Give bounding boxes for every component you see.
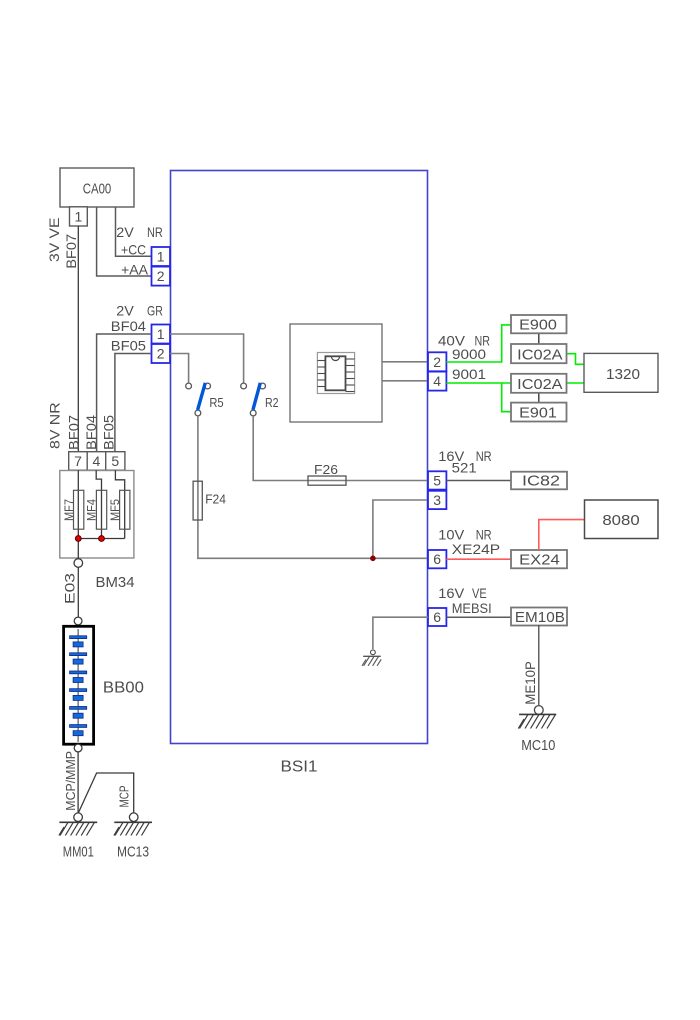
wire branch to MC13 [78, 773, 133, 813]
wire pin4 through fuse MF4 [96, 470, 101, 538]
svg-text:E901: E901 [519, 405, 557, 422]
svg-text:BB00: BB00 [103, 680, 144, 697]
pin 1 of CA00 [70, 207, 88, 226]
fuse F26 [308, 462, 346, 485]
svg-text:IC82: IC82 [522, 473, 560, 490]
svg-text:BF05: BF05 [111, 338, 146, 354]
svg-text:IC02A: IC02A [517, 376, 562, 393]
junction node (MF7) [75, 536, 81, 542]
svg-text:3V VE: 3V VE [46, 218, 62, 263]
wire pin6 to EM10B [446, 616, 511, 618]
pin 6 (XE24P) of BSI1 [428, 550, 446, 568]
svg-text:521: 521 [452, 459, 477, 475]
node E03 [74, 559, 83, 568]
switch R5 [186, 383, 224, 416]
wire pin6 internal to ground [373, 617, 428, 649]
svg-text:E900: E900 [519, 317, 557, 334]
unit EX24 [511, 550, 567, 569]
unit IC02A (upper) [511, 344, 567, 364]
svg-text:2V: 2V [116, 303, 134, 319]
wire pin 3 internal [373, 500, 428, 558]
svg-text:5: 5 [111, 453, 119, 469]
fuse F24 [193, 481, 226, 520]
unit E901 [511, 403, 567, 422]
svg-text:BF05: BF05 [101, 415, 117, 450]
svg-text:MF5: MF5 [108, 499, 122, 521]
svg-text:EM10B: EM10B [515, 609, 565, 626]
wire R2 down through F26 to pin 5 [253, 416, 428, 481]
unit 1320 [584, 353, 658, 392]
svg-text:16V: 16V [438, 585, 465, 601]
unit IC82 [511, 472, 567, 490]
svg-text:EX24: EX24 [519, 552, 560, 569]
svg-text:6: 6 [433, 609, 441, 625]
wire pin2 to switch R5 [170, 354, 189, 383]
svg-text:MC13: MC13 [117, 844, 149, 861]
red wire EX24 to 8080 [539, 520, 585, 550]
pin 2 (BF05) of BSI1 [152, 344, 171, 363]
svg-text:E03: E03 [62, 573, 78, 604]
svg-text:NR: NR [476, 448, 492, 464]
svg-text:+CC: +CC [121, 241, 146, 257]
unit BSI1 outline [171, 171, 428, 744]
svg-text:MCP: MCP [117, 786, 132, 808]
green wire IC02A to 1320 [567, 354, 585, 365]
wire E03 to battery [77, 567, 79, 617]
battery BB00 [64, 617, 144, 752]
unit BM34 outline [60, 471, 134, 559]
fuse MF7 [62, 490, 84, 529]
svg-text:4: 4 [433, 373, 441, 389]
svg-text:BF07: BF07 [63, 234, 79, 269]
link IC02A to E901 [538, 393, 540, 403]
wire CPU to pin 2 [382, 361, 428, 363]
wire +AA from CA00 to BSI pin 2 [97, 207, 152, 276]
red wire pin6 to EX24 [446, 558, 511, 560]
svg-text:GR: GR [147, 303, 163, 319]
ground MC10 [518, 706, 556, 754]
pin 2 (+AA) of BSI1 [152, 267, 171, 286]
svg-text:1: 1 [157, 249, 165, 265]
wire BF05 down to BM34 pin 5 [115, 354, 152, 452]
svg-text:F24: F24 [205, 492, 226, 507]
svg-text:9000: 9000 [452, 346, 486, 362]
svg-text:BF04: BF04 [83, 415, 99, 450]
pin 7 of BM34 [69, 452, 88, 471]
svg-text:NR: NR [147, 224, 163, 240]
svg-text:MCP/MMP: MCP/MMP [63, 751, 78, 811]
fuse MF5 [108, 490, 130, 529]
svg-text:BM34: BM34 [96, 574, 135, 591]
svg-text:8080: 8080 [602, 512, 639, 529]
svg-text:5: 5 [433, 472, 441, 488]
fuse MF4 [85, 490, 107, 529]
svg-text:2: 2 [433, 354, 441, 370]
svg-text:1: 1 [75, 209, 83, 225]
wire BF07 from CA00 pin1 down to BM34 pin 7 [77, 226, 79, 452]
pin 1 (BF04) of BSI1 [152, 325, 171, 344]
svg-text:MC10: MC10 [521, 737, 555, 754]
svg-text:BSI1: BSI1 [281, 759, 318, 776]
svg-text:3: 3 [433, 492, 441, 508]
svg-text:MEBSI: MEBSI [452, 600, 492, 616]
wire joining fuses [78, 538, 124, 540]
link E900 to IC02A [538, 333, 540, 344]
green wire IC02A(2) to 1320 [567, 382, 585, 384]
pin 6 (MEBSI) of BSI1 [428, 608, 446, 626]
pin 1 (+CC) of BSI1 [152, 247, 171, 266]
wire R5 down through F24 to pin 6 [198, 416, 428, 558]
svg-text:MF7: MF7 [62, 499, 76, 521]
svg-text:2: 2 [157, 346, 165, 362]
CPU block of BSI1 [290, 324, 382, 422]
wire pin1 to switch R2 [170, 334, 244, 383]
ground MC13 [114, 813, 152, 861]
wire +CC from CA00 to BSI pin 1 [116, 207, 152, 256]
svg-text:IC02A: IC02A [517, 347, 562, 364]
unit E900 [511, 315, 567, 334]
connector CA00 [60, 168, 134, 207]
switch R2 [241, 383, 279, 416]
svg-text:F26: F26 [314, 462, 338, 477]
svg-text:2: 2 [157, 268, 165, 284]
svg-text:2V: 2V [116, 224, 134, 240]
pin 2 of BSI1 (right) [428, 352, 446, 371]
ground (internal) [362, 650, 381, 666]
svg-text:BF04: BF04 [111, 318, 146, 334]
wire BF04 down to BM34 pin 4 [97, 334, 152, 452]
pin 5 of BM34 [106, 452, 125, 471]
svg-text:R2: R2 [265, 395, 279, 410]
svg-text:+AA: +AA [121, 261, 149, 277]
svg-text:MM01: MM01 [63, 844, 94, 861]
svg-text:VE: VE [472, 585, 487, 601]
svg-text:6: 6 [433, 551, 441, 567]
pin 4 of BSI1 (right) [428, 372, 446, 391]
svg-text:8V NR: 8V NR [47, 402, 63, 449]
svg-text:7: 7 [74, 453, 82, 469]
green wire pin2 to E900 [446, 325, 511, 362]
svg-text:1320: 1320 [606, 366, 640, 383]
wire battery to ground MM01 [77, 752, 79, 813]
svg-text:XE24P: XE24P [452, 541, 500, 557]
svg-text:9001: 9001 [452, 366, 486, 382]
svg-text:ME10P: ME10P [522, 661, 538, 705]
unit EM10B [511, 608, 567, 626]
unit 8080 [585, 500, 659, 539]
green wire pin4 to IC02A [446, 382, 511, 384]
svg-text:R5: R5 [209, 395, 223, 410]
junction node [370, 556, 376, 562]
pin 5 of BSI1 [428, 471, 446, 489]
unit IC02A (lower) [511, 374, 567, 393]
svg-text:CA00: CA00 [83, 181, 112, 198]
IC U1 inside CPU block [317, 353, 354, 394]
svg-text:4: 4 [93, 453, 101, 469]
svg-text:1: 1 [157, 326, 165, 342]
junction node (MF4) [99, 536, 105, 542]
wire pin5 to IC82 [446, 480, 511, 482]
pin 4 of BM34 [87, 452, 106, 471]
svg-text:MF4: MF4 [85, 499, 99, 521]
wire pin5 through fuse MF5 [115, 470, 124, 538]
wire pin7 through fuse MF7 [77, 470, 79, 558]
pin 3 of BSI1 [428, 491, 446, 509]
ground MM01 [59, 813, 97, 861]
wire EM10B down to MC10 [538, 626, 540, 706]
green wire branch to E901 [502, 383, 511, 412]
wire CPU to pin 4 [382, 380, 428, 382]
svg-text:BF07: BF07 [66, 415, 82, 450]
